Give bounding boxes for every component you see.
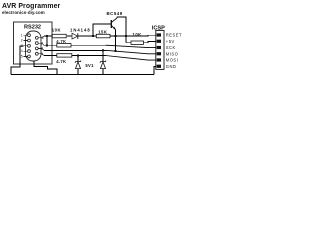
resistor R1 10K [52,34,66,38]
svg-text:6: 6 [42,36,44,40]
ground rail [11,73,154,75]
DB9 pin circles left column (pins 1-5) [28,34,31,58]
svg-text:8: 8 [41,47,43,51]
resistor R3 4.7K SCK [57,44,71,47]
wire ground rail up to ICSP GND pin [154,66,156,74]
wire base loop [93,24,111,36]
svg-text:15K: 15K [98,30,107,35]
wire to ICSP RESET pin [126,34,156,37]
svg-text:5V1: 5V1 [85,63,94,68]
wire SCK row to slope start [71,44,106,46]
svg-text:4.7K: 4.7K [56,39,66,44]
svg-text:1N4148: 1N4148 [70,28,91,33]
DB9 pin circles right column (pins 6-9) [35,36,38,55]
wire DB9 pin3 to ground [11,46,24,75]
svg-text:+5V: +5V [166,39,175,44]
DB9 right pin joggles to wires [42,36,44,56]
DB9 left pin numbers [21,33,23,58]
reset tap junction dot [125,35,127,37]
svg-text:1: 1 [21,33,23,37]
wire MISO row to slope start [44,49,106,51]
svg-text:4: 4 [21,49,23,53]
wire SCK slope into ICSP SCK pin [106,45,156,47]
node B junction dot [92,35,94,37]
DB9 connector body [26,31,42,61]
wire DB9 bottom staircase to ground [34,60,57,74]
transistor Q1 emitter arrow [113,27,116,30]
svg-text:10K: 10K [133,32,142,37]
resistor R5 4.7K MOSI [57,54,72,57]
svg-text:MOSI: MOSI [166,58,178,63]
ICSP pin pads [157,33,161,67]
wire collector net [117,17,126,43]
svg-text:4.7K: 4.7K [56,59,66,64]
wire 10K R4 to ICSP +5V pin [144,41,156,42]
svg-text:electronics-diy.com: electronics-diy.com [2,10,45,15]
svg-text:9: 9 [41,52,43,56]
svg-text:GND: GND [166,64,177,69]
wire zener Z2 branch [102,50,104,74]
wire MOSI row [44,55,57,57]
svg-text:RESET: RESET [166,33,182,38]
ICSP pin labels [166,33,182,69]
resistor R4 10K pullup [131,41,144,44]
wire zener Z1 branch [77,56,79,75]
zener Z1 top junction dot [77,55,79,57]
svg-text:10K: 10K [52,27,61,32]
wire pin6 to 10K R1 [44,35,53,37]
zener Z2 [100,61,106,69]
wire node A down to wire SCK [46,36,48,45]
svg-text:7: 7 [41,41,43,45]
svg-text:RS232: RS232 [24,25,41,31]
DB9 left pin stubs [24,35,28,56]
diode D1 1N4148 [72,33,78,39]
wire collector to 10K R4 [126,42,131,44]
node A lower junction dot [46,45,48,47]
wire SCK row [44,44,57,46]
wire MOSI row to slope start [72,55,106,57]
zener Z1 5V1 [75,61,81,69]
wire emitter vertical [115,30,117,52]
RS232 box [14,22,53,64]
svg-text:MISO: MISO [166,51,178,56]
ICSP connector box [156,30,164,69]
svg-text:BC549: BC549 [107,11,123,16]
wire diode D1 to node B [78,35,97,37]
resistor R2 15K [96,34,110,38]
zener Z2 top junction dot [102,49,104,51]
emitter-MISO junction dot [115,50,117,52]
node A junction dot [46,35,48,37]
wire MOSI slope into ICSP MOSI pin [106,56,156,61]
transistor Q1 BC549 [111,17,117,30]
DB9 right pin numbers [41,36,44,56]
svg-text:2: 2 [21,39,23,43]
wire 15K R2 to emitter node [110,35,126,37]
wire MISO slope into ICSP MISO pin [106,50,156,54]
emitter node junction dot [115,35,117,37]
svg-text:5: 5 [21,55,23,59]
svg-text:SCK: SCK [166,45,176,50]
DB9 right pin stubs [38,38,42,54]
wire 10K R1 to diode D1 [67,35,72,37]
